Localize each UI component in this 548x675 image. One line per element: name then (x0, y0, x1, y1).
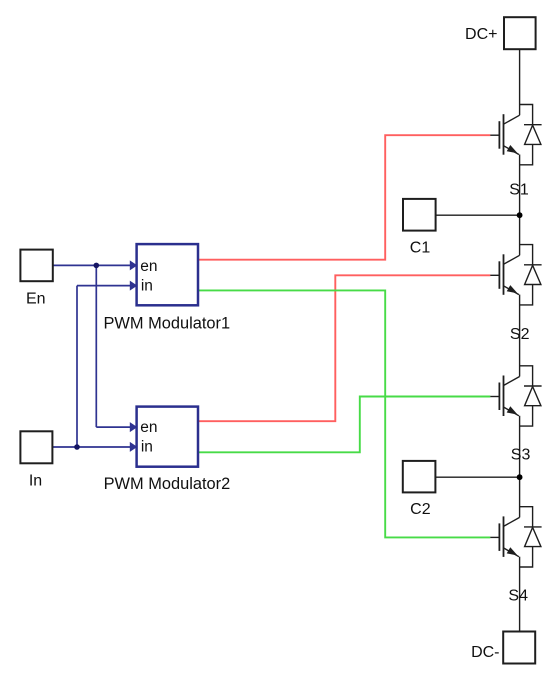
svg-text:DC-: DC- (471, 644, 499, 661)
svg-text:en: en (140, 258, 157, 275)
svg-text:S2: S2 (510, 326, 530, 343)
svg-text:PWM Modulator2: PWM Modulator2 (104, 475, 231, 493)
svg-text:In: In (29, 473, 42, 490)
svg-text:C1: C1 (410, 239, 431, 256)
svg-text:in: in (141, 278, 153, 295)
svg-text:C2: C2 (410, 501, 431, 518)
svg-text:S4: S4 (508, 588, 528, 605)
svg-text:En: En (26, 290, 46, 307)
svg-text:S1: S1 (509, 182, 529, 199)
svg-text:in: in (141, 438, 153, 455)
svg-text:S3: S3 (511, 447, 531, 464)
svg-text:en: en (140, 419, 157, 436)
svg-text:PWM Modulator1: PWM Modulator1 (103, 314, 230, 332)
svg-text:DC+: DC+ (465, 26, 497, 43)
